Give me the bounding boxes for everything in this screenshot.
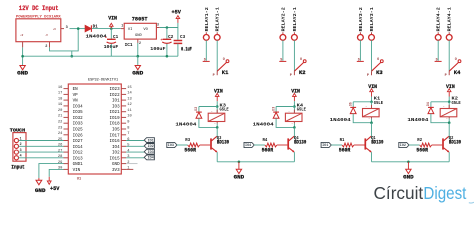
wire U1 VIN to +5V bbox=[49, 169, 63, 176]
U1 pin 7 IO17 bbox=[121, 134, 126, 136]
wire C2 bottom to rail bbox=[166, 44, 168, 56]
resistor R1 560R bbox=[342, 143, 354, 147]
svg-text:1N4004: 1N4004 bbox=[175, 122, 196, 128]
node C2 top junction bbox=[166, 26, 169, 29]
net flag IO1 bbox=[321, 142, 331, 147]
svg-text:-: - bbox=[443, 106, 445, 109]
wire emitter of Q3 down bbox=[216, 152, 218, 162]
svg-text:VP: VP bbox=[73, 94, 79, 98]
node top junction K4 bbox=[293, 105, 296, 108]
svg-text:RELAY3-1: RELAY3-1 bbox=[369, 7, 375, 31]
svg-text:O: O bbox=[300, 58, 302, 62]
U1 pin 10 IO19 bbox=[121, 116, 126, 118]
wire down to gnd symbol bbox=[137, 56, 139, 65]
svg-text:1N4004: 1N4004 bbox=[86, 33, 107, 39]
ground symbol driver pair 1 bbox=[238, 162, 240, 170]
wire top junction to diode D4 bbox=[431, 101, 449, 103]
wire U1 GND1 to ground bbox=[39, 164, 64, 178]
U1 pin 21 IO32 bbox=[64, 116, 69, 118]
svg-text:IO25: IO25 bbox=[73, 129, 84, 133]
wire top junction to diode D5 bbox=[353, 101, 371, 103]
wire J1 pin1 to ground bbox=[22, 47, 24, 65]
svg-text:RELAY2-1: RELAY2-1 bbox=[292, 7, 298, 31]
svg-text:EN: EN bbox=[73, 88, 79, 92]
svg-text:IO34: IO34 bbox=[73, 105, 84, 109]
U1 pin 12 IO3 bbox=[121, 105, 126, 107]
wire U1 to net flag IO4 bbox=[126, 157, 144, 159]
wire diode anode to bottom junction bbox=[353, 114, 371, 123]
svg-text:RELAY3-2: RELAY3-2 bbox=[358, 7, 364, 31]
svg-text:IO4: IO4 bbox=[148, 156, 154, 160]
svg-text:VIN: VIN bbox=[214, 89, 223, 95]
touch connector pad 3 bbox=[14, 150, 18, 154]
relay switch K3 bbox=[357, 60, 364, 62]
svg-text:17: 17 bbox=[58, 92, 62, 96]
node ground rail junction bbox=[71, 55, 74, 58]
U1 pin 24 IO26 bbox=[64, 134, 69, 136]
U1 pin 13 IO1 bbox=[121, 99, 126, 101]
svg-text:U1: U1 bbox=[77, 178, 81, 182]
node top junction K3 bbox=[216, 105, 219, 108]
wire touch pad 1 to U1 bbox=[19, 140, 64, 142]
wire VIN junction down to C1 bbox=[110, 29, 112, 39]
wire touch pad 3 to U1 bbox=[19, 151, 64, 153]
svg-text:1N4004: 1N4004 bbox=[253, 122, 274, 128]
svg-text:15: 15 bbox=[127, 86, 131, 90]
supply flag +5V bbox=[176, 16, 180, 19]
svg-text:22: 22 bbox=[58, 121, 62, 125]
U1 pin 26 IO14 bbox=[64, 145, 69, 147]
svg-text:RELAY2-2: RELAY2-2 bbox=[280, 7, 286, 31]
wire U1 to net flag IO2 bbox=[126, 145, 144, 147]
wire flag to resistor R2 bbox=[409, 144, 420, 146]
diode D1 bbox=[85, 26, 91, 32]
supply flag VIN for driver K1 bbox=[370, 89, 374, 92]
flyback diode D4 1N4004 bbox=[428, 106, 434, 108]
capacitor C1 100uF bbox=[107, 38, 116, 40]
capacitor C3 0.1uF bbox=[177, 28, 179, 41]
svg-text:26: 26 bbox=[58, 144, 62, 148]
svg-text:GND1: GND1 bbox=[73, 163, 84, 167]
svg-text:560R: 560R bbox=[262, 147, 274, 153]
coil K4 bottom pin bbox=[293, 122, 295, 124]
wire touch pad 2 to U1 bbox=[19, 145, 64, 147]
svg-text:IO2: IO2 bbox=[400, 143, 406, 147]
wire U1 3V3 pin 1 stub bbox=[126, 168, 133, 170]
svg-text:IO26: IO26 bbox=[73, 134, 84, 138]
svg-text:R4: R4 bbox=[263, 138, 268, 143]
wire flag to resistor R4 bbox=[254, 144, 265, 146]
svg-text:4: 4 bbox=[20, 154, 22, 158]
svg-text:-: - bbox=[291, 122, 293, 125]
transistor Q1 BD139 bbox=[364, 138, 366, 149]
net flag IO2 bbox=[144, 144, 154, 149]
svg-text:IO21: IO21 bbox=[110, 111, 121, 115]
svg-text:RELAY1-1: RELAY1-1 bbox=[215, 7, 221, 31]
wire C1 to ground rail bbox=[110, 44, 112, 56]
flyback diode D3 1N4004 bbox=[273, 111, 279, 113]
svg-text:3: 3 bbox=[157, 23, 159, 27]
svg-text:BD139: BD139 bbox=[449, 140, 461, 146]
wire VIN to coil K1 bbox=[371, 97, 373, 102]
svg-text:D2: D2 bbox=[194, 107, 198, 111]
relay coil K1 G5LE bbox=[371, 102, 373, 109]
U1 pin 20 IO35 bbox=[64, 111, 69, 113]
svg-text:13: 13 bbox=[127, 97, 131, 101]
supply flag VIN bbox=[110, 23, 114, 26]
ground symbol below touch input bbox=[38, 178, 40, 181]
svg-text:-: - bbox=[214, 122, 216, 125]
svg-text:IO19: IO19 bbox=[110, 117, 121, 121]
wire flag to resistor R3 bbox=[177, 144, 188, 146]
svg-text:24: 24 bbox=[58, 132, 63, 136]
wire diode anode to bottom junction bbox=[199, 118, 217, 127]
relay coil K4 G5LE bbox=[293, 107, 295, 114]
capacitor C2 100uF bbox=[163, 38, 172, 40]
supply flag VIN for driver K4 bbox=[293, 93, 297, 96]
svg-text:RELAY4-1: RELAY4-1 bbox=[447, 7, 453, 31]
svg-text:IO5: IO5 bbox=[112, 129, 120, 133]
ground symbol driver pair 2 bbox=[407, 162, 409, 170]
node bottom junction K1 bbox=[370, 121, 373, 124]
U1 pin 6 IO16 bbox=[121, 140, 126, 142]
relay coil K2 G5LE bbox=[448, 102, 450, 109]
svg-text:27: 27 bbox=[58, 149, 62, 153]
wire U1 GND pin 2 stub (gray) bbox=[126, 163, 137, 165]
svg-text:2: 2 bbox=[20, 142, 22, 146]
svg-text:30: 30 bbox=[58, 167, 62, 171]
svg-text:8: 8 bbox=[127, 126, 129, 130]
svg-text:ESP32-DEVKITV1: ESP32-DEVKITV1 bbox=[88, 79, 119, 83]
svg-text:GND: GND bbox=[17, 71, 29, 77]
svg-text:9: 9 bbox=[127, 121, 129, 125]
svg-text:Digest: Digest bbox=[423, 183, 466, 203]
node ground rail junction bbox=[238, 161, 241, 164]
svg-text:12V DC Input: 12V DC Input bbox=[19, 5, 59, 12]
U1 pin 17 VP bbox=[64, 93, 69, 95]
U1 pin 30 VIN bbox=[64, 168, 69, 170]
wire top junction to diode D2 bbox=[199, 106, 217, 108]
wire U1 to net flag IO1 bbox=[126, 140, 144, 142]
wire VIN to coil K4 bbox=[293, 101, 295, 106]
svg-text:5: 5 bbox=[127, 144, 129, 148]
svg-text:1: 1 bbox=[121, 24, 123, 28]
relay coil K3 G5LE bbox=[216, 107, 218, 114]
pin stub J1 pin 1 bbox=[22, 42, 24, 48]
flyback diode D2 1N4004 bbox=[196, 111, 202, 113]
svg-text:100uF: 100uF bbox=[150, 46, 165, 52]
wire branch down to ground rail bbox=[71, 51, 73, 56]
U1 pin 25 IO27 bbox=[64, 140, 69, 142]
svg-text:11: 11 bbox=[127, 109, 132, 113]
svg-text:IC1: IC1 bbox=[125, 42, 133, 48]
svg-text:23: 23 bbox=[58, 126, 62, 130]
svg-text:VN: VN bbox=[73, 100, 79, 104]
svg-text:IO32: IO32 bbox=[73, 117, 84, 121]
svg-text:IO4: IO4 bbox=[245, 143, 251, 147]
svg-text:20: 20 bbox=[58, 109, 62, 113]
svg-text:VIN: VIN bbox=[446, 84, 455, 90]
svg-text:VIN: VIN bbox=[368, 84, 377, 90]
svg-text:C2: C2 bbox=[168, 35, 174, 40]
wire emitter of Q4 down bbox=[293, 152, 295, 162]
svg-text:IO35: IO35 bbox=[73, 111, 84, 115]
svg-text:IO15: IO15 bbox=[110, 157, 121, 161]
svg-text:D3: D3 bbox=[271, 107, 275, 111]
svg-text:P: P bbox=[213, 74, 215, 78]
net flag IO1 bbox=[144, 138, 154, 143]
svg-text:1: 1 bbox=[20, 136, 22, 140]
U1 pin 3 IO15 bbox=[121, 157, 126, 159]
net flag IO4 bbox=[244, 142, 254, 147]
ground symbol at power connector bbox=[20, 66, 25, 70]
svg-text:3: 3 bbox=[20, 148, 22, 152]
ground rail drivers 1-2 bbox=[217, 161, 294, 163]
node top junction K2 bbox=[448, 101, 451, 104]
svg-text:21: 21 bbox=[58, 115, 63, 119]
pin stub J1 pin 2 bbox=[49, 42, 51, 48]
wire IC1 GND to rail bbox=[137, 43, 139, 56]
svg-text:RELAY1-2: RELAY1-2 bbox=[204, 7, 210, 31]
resistor R4 560R bbox=[265, 143, 277, 147]
svg-text:G5LE: G5LE bbox=[374, 101, 384, 106]
ground rail wire (power section) bbox=[23, 55, 178, 57]
wire U1 to net flag IO3 bbox=[126, 151, 144, 153]
svg-text:29: 29 bbox=[58, 161, 62, 165]
svg-text:IO13: IO13 bbox=[73, 157, 84, 161]
wire J1 pin2 jog to diode anode bbox=[50, 29, 79, 51]
relay switch K1 bbox=[203, 60, 210, 62]
wire junction to collector Q3 bbox=[216, 127, 218, 136]
svg-text:Input: Input bbox=[11, 165, 24, 171]
U1 pin 9 IO18 bbox=[121, 122, 126, 124]
U1 pin 11 IO21 bbox=[121, 111, 126, 113]
svg-text:IO4: IO4 bbox=[112, 146, 120, 150]
wire junction to collector Q1 bbox=[371, 123, 373, 137]
svg-text:C3: C3 bbox=[180, 35, 186, 40]
wire RELAY4-1 to switch common P bbox=[448, 40, 450, 71]
pin stub IC1 VI pin 1 bbox=[121, 28, 124, 30]
svg-text:6: 6 bbox=[127, 138, 129, 142]
wire RELAY3-2 to switch S contact bbox=[359, 40, 361, 61]
svg-text:S: S bbox=[280, 58, 282, 62]
node bottom junction K2 bbox=[448, 121, 451, 124]
svg-text:BD139: BD139 bbox=[217, 140, 229, 146]
coil K1 bottom pin bbox=[371, 117, 373, 119]
svg-text:+5V: +5V bbox=[50, 186, 60, 192]
node VIN junction bbox=[110, 27, 113, 30]
svg-text:G5LE: G5LE bbox=[220, 108, 230, 113]
U1 pin 19 IO34 bbox=[64, 105, 69, 107]
svg-text:28: 28 bbox=[58, 155, 62, 159]
wire resistor R3 to base of Q3 bbox=[200, 144, 211, 146]
wire RELAY3-1 to switch common P bbox=[371, 40, 373, 71]
svg-text:-: - bbox=[211, 110, 213, 113]
svg-text:560R: 560R bbox=[339, 147, 351, 153]
wire RELAY1-2 to switch S contact bbox=[205, 40, 207, 61]
U1 pin 29 GND1 bbox=[64, 163, 69, 165]
svg-text:0.1uF: 0.1uF bbox=[181, 47, 192, 53]
pin stub J1 pin 3 bbox=[61, 28, 64, 30]
svg-text:2: 2 bbox=[139, 41, 141, 45]
svg-text:O: O bbox=[377, 58, 379, 62]
svg-text:IO1: IO1 bbox=[322, 143, 328, 147]
svg-text:GND: GND bbox=[234, 175, 245, 181]
wire diode anode to bottom junction bbox=[431, 114, 449, 123]
wire RELAY2-2 to switch S contact bbox=[282, 40, 284, 61]
pin stub IC1 VO pin 3 bbox=[156, 27, 159, 29]
transistor Q3 BD139 bbox=[210, 138, 212, 149]
svg-text:GND: GND bbox=[112, 163, 120, 167]
flyback diode D5 1N4004 bbox=[350, 106, 356, 108]
svg-text:GND: GND bbox=[35, 188, 46, 194]
net flag IO2 bbox=[399, 142, 409, 147]
node bottom junction K3 bbox=[216, 126, 219, 129]
ground symbol below IC1 bbox=[135, 66, 140, 70]
wire RELAY2-1 to switch common P bbox=[293, 40, 295, 71]
wire top junction to diode D3 bbox=[276, 106, 294, 108]
svg-text:2: 2 bbox=[127, 161, 129, 165]
svg-text:IO27: IO27 bbox=[73, 140, 84, 144]
wire C3 bottom to rail bbox=[177, 44, 179, 57]
svg-text:K2: K2 bbox=[299, 70, 306, 76]
svg-text:VIN: VIN bbox=[73, 169, 81, 173]
svg-text:IO2: IO2 bbox=[112, 152, 120, 156]
wire flag to resistor R1 bbox=[331, 144, 342, 146]
wire IC1 VO to +5V bbox=[160, 27, 178, 29]
svg-text:3: 3 bbox=[66, 26, 68, 30]
svg-text:VO: VO bbox=[143, 28, 148, 32]
svg-text:IO3: IO3 bbox=[148, 150, 154, 154]
touch connector pad 4 bbox=[14, 156, 18, 160]
svg-text:560R: 560R bbox=[184, 147, 196, 153]
svg-text:3: 3 bbox=[127, 155, 129, 159]
svg-text:R3: R3 bbox=[185, 138, 190, 143]
wire VIN to coil K3 bbox=[216, 101, 218, 106]
svg-text:G5LE: G5LE bbox=[297, 108, 307, 113]
coil K2 bottom pin bbox=[448, 117, 450, 119]
wire RELAY1-1 to switch common P bbox=[216, 40, 218, 71]
svg-text:14: 14 bbox=[127, 92, 132, 96]
svg-text:IO1: IO1 bbox=[112, 100, 120, 104]
relay switch K2 bbox=[279, 60, 286, 62]
svg-text:1N4004: 1N4004 bbox=[407, 117, 428, 123]
U1 pin 8 IO5 bbox=[121, 128, 126, 130]
svg-text:-: - bbox=[365, 106, 367, 109]
wire resistor R4 to base of Q4 bbox=[277, 144, 288, 146]
wire +5V riser bbox=[177, 23, 179, 28]
svg-text:18: 18 bbox=[58, 97, 62, 101]
svg-text:K1: K1 bbox=[222, 70, 229, 76]
U1 pin 27 IO12 bbox=[64, 151, 69, 153]
node diode anode junction bbox=[77, 27, 80, 30]
svg-text:BD139: BD139 bbox=[294, 140, 306, 146]
supply flag VIN for driver K3 bbox=[215, 93, 219, 96]
svg-text:Círcuit: Círcuit bbox=[374, 183, 424, 203]
svg-text:VI: VI bbox=[128, 28, 133, 32]
net flag IO4 bbox=[144, 155, 154, 160]
svg-text:C1: C1 bbox=[113, 35, 119, 40]
svg-text:S: S bbox=[204, 58, 206, 62]
svg-text:P: P bbox=[290, 74, 292, 78]
svg-text:16: 16 bbox=[58, 86, 62, 90]
svg-text:S: S bbox=[436, 58, 438, 62]
wire junction to collector Q2 bbox=[448, 123, 450, 137]
svg-text:12: 12 bbox=[127, 103, 131, 107]
node top junction K1 bbox=[370, 101, 373, 104]
svg-text:IO3: IO3 bbox=[112, 105, 120, 109]
svg-text:VIN: VIN bbox=[291, 89, 300, 95]
U1 pin 14 IO22 bbox=[121, 93, 126, 95]
coil K3 bottom pin bbox=[216, 122, 218, 124]
U1 pin 28 IO13 bbox=[64, 157, 69, 159]
svg-text:IO23: IO23 bbox=[110, 88, 121, 92]
U1 pin 18 VN bbox=[64, 99, 69, 101]
node bottom junction K4 bbox=[293, 126, 296, 129]
svg-text:O: O bbox=[223, 58, 225, 62]
svg-text:GND: GND bbox=[135, 34, 143, 38]
svg-text:S: S bbox=[358, 58, 360, 62]
wire emitter of Q1 down bbox=[371, 152, 373, 162]
svg-text:IO18: IO18 bbox=[110, 123, 121, 127]
net flag IO3 bbox=[167, 142, 177, 147]
wire diode anode to bottom junction bbox=[276, 118, 294, 127]
svg-text:P: P bbox=[367, 74, 369, 78]
svg-text:+5V: +5V bbox=[172, 10, 182, 16]
wire J1 pin3 to D1 anode bbox=[70, 28, 86, 30]
touch connector pad 1 bbox=[14, 138, 18, 142]
U1 pin 4 IO2 bbox=[121, 151, 126, 153]
svg-text:GND: GND bbox=[403, 175, 414, 181]
svg-text:10: 10 bbox=[127, 115, 131, 119]
svg-text:25: 25 bbox=[58, 138, 62, 142]
svg-text:G5LE: G5LE bbox=[452, 101, 462, 106]
wire emitter of Q2 down bbox=[448, 152, 450, 162]
svg-text:VIN: VIN bbox=[108, 16, 117, 22]
svg-text:K4: K4 bbox=[454, 70, 461, 76]
svg-text:IO16: IO16 bbox=[110, 140, 121, 144]
svg-text:-: - bbox=[288, 110, 290, 113]
svg-text:K3: K3 bbox=[376, 70, 383, 76]
wire C2 top bbox=[166, 28, 168, 40]
svg-text:560R: 560R bbox=[416, 147, 428, 153]
svg-text:O: O bbox=[455, 58, 457, 62]
U1 pin 1 3V3 bbox=[121, 168, 126, 170]
transistor Q4 BD139 bbox=[287, 138, 289, 149]
svg-text:IO17: IO17 bbox=[110, 134, 121, 138]
svg-text:2: 2 bbox=[45, 45, 47, 49]
U1 pin 2 GND bbox=[121, 163, 126, 165]
ground rail drivers 3-4 bbox=[372, 161, 450, 163]
wire VIN to coil K2 bbox=[448, 97, 450, 102]
svg-text:19: 19 bbox=[58, 103, 62, 107]
svg-text:P: P bbox=[445, 74, 447, 78]
wire D1 cathode to IC1 VI bbox=[92, 28, 121, 30]
wire touch pad 4 to U1 bbox=[19, 157, 64, 159]
svg-text:R1: R1 bbox=[340, 138, 345, 143]
wire resistor R1 to base of Q1 bbox=[354, 144, 365, 146]
pin stub IC1 GND pin 2 bbox=[137, 39, 139, 43]
svg-text:IO3: IO3 bbox=[168, 143, 174, 147]
resistor R2 560R bbox=[420, 143, 432, 147]
svg-text:R2: R2 bbox=[417, 138, 422, 143]
touch connector box bbox=[13, 133, 26, 162]
svg-text:D5: D5 bbox=[349, 102, 353, 106]
U1 pin 16 EN bbox=[64, 88, 69, 90]
relay switch K4 bbox=[435, 60, 442, 62]
wire junction to collector Q4 bbox=[293, 127, 295, 136]
transistor Q2 BD139 bbox=[442, 138, 444, 149]
